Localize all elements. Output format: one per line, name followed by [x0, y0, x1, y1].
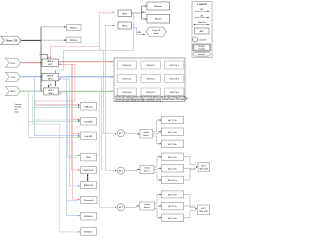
node AP1 circle [117, 130, 124, 137]
svg-text:AP 2: AP 2 [119, 170, 123, 173]
svg-text:OVS Ch 2: OVS Ch 2 [170, 78, 180, 80]
svg-text:inverter: inverter [198, 48, 205, 51]
box AC 2-3 [162, 176, 184, 184]
wire blue branch to box D [67, 156, 79, 158]
wire AP2 to hub2 [125, 169, 140, 171]
box AC 2-2 [162, 165, 184, 173]
svg-text:AVR Rx A: AVR Rx A [84, 169, 94, 172]
wire red PG1 to PS-A [21, 62, 42, 63]
svg-text:8ch SW: 8ch SW [85, 136, 92, 138]
svg-text:OVS #d 2: OVS #d 2 [122, 78, 132, 80]
wire blue LV4 riser to boxes A B C [34, 77, 80, 137]
legend junction circle entry [193, 37, 207, 42]
svg-text:OVS #d 3: OVS #d 3 [122, 92, 132, 94]
svg-text:AC 2-2 In: AC 2-2 In [168, 167, 177, 170]
svg-text:AC 3-2 In: AC 3-2 In [168, 205, 177, 208]
box I ATV C [81, 228, 97, 236]
box IPS1 [118, 10, 132, 17]
wire red branch to box C [73, 133, 80, 134]
wire red down to AP circle 1 [99, 50, 117, 135]
box G Chrome [81, 197, 98, 204]
svg-text:Coax TV: Coax TV [152, 30, 161, 32]
legend DC entry [194, 9, 209, 12]
svg-text:LPS 1: LPS 1 [48, 90, 55, 92]
box H ATV B [81, 212, 97, 220]
wire branch to PROJ2 [41, 39, 66, 41]
wire IPS2 to coax hexagon [132, 28, 146, 36]
box AC 1-1 [162, 116, 184, 124]
wire green EX3 riser to boxes B C [29, 91, 80, 138]
box PS-B 48V [42, 74, 59, 81]
svg-text:Power 120: Power 120 [6, 41, 18, 43]
wire group3 to AC outlet 3 [184, 194, 198, 217]
svg-text:AP 3: AP 3 [119, 206, 123, 209]
wire power main [21, 39, 41, 41]
connector coax TV antenna [146, 27, 167, 36]
wire blue riser to box F [69, 79, 80, 187]
svg-text:AC 1-3 In: AC 1-3 In [168, 143, 177, 146]
svg-text:AC 2-C In: AC 2-C In [168, 179, 178, 182]
svg-text:AC 3-3 In: AC 3-3 In [168, 217, 177, 220]
svg-text:Wi-Fi: Wi-Fi [86, 157, 91, 159]
legend device box entry [195, 28, 210, 34]
svg-text:48 V: 48 V [200, 30, 205, 33]
wire exit mark PS-A east [60, 64, 62, 66]
wire red riser to AVR E [71, 64, 80, 170]
wire exit mark PS-C east [60, 92, 62, 94]
svg-text:extender: extender [199, 38, 207, 41]
wire red PS-A stub east [59, 63, 75, 65]
svg-text:AC 1-T In: AC 1-T In [168, 119, 178, 122]
svg-text:OVS Ch 3: OVS Ch 3 [170, 92, 180, 94]
svg-text:AP 1: AP 1 [119, 132, 123, 135]
box AC 3-2 [162, 202, 184, 210]
wire red branch to PS-A top [50, 47, 100, 59]
box E AVR [81, 167, 97, 174]
svg-text:Box/Tw: Box/Tw [198, 22, 206, 24]
svg-text:PG 1: PG 1 [11, 63, 17, 65]
svg-text:Sw/n c: Sw/n c [144, 207, 150, 209]
box AC 1-2 [162, 128, 184, 136]
svg-text:AC 3-T In: AC 3-T In [168, 193, 178, 196]
note asterisk left [15, 104, 22, 114]
connector PG1 [6, 58, 21, 67]
svg-text:media: media [143, 132, 149, 134]
svg-text:IPS 1: IPS 1 [122, 13, 128, 15]
box AC 3-1 [162, 191, 184, 198]
box OVS 1-3 [165, 61, 184, 69]
box router R2 [147, 15, 170, 24]
svg-text:Chrome N: Chrome N [84, 200, 94, 202]
wire red riser to Chrome G [73, 64, 80, 200]
wire trunk stub into PS-A [39, 55, 48, 59]
box OVS 1-1 [117, 61, 136, 69]
svg-text:AC 2: AC 2 [202, 164, 206, 167]
wire blue PS-B stub east [59, 78, 70, 80]
svg-text:anten: anten [154, 32, 160, 35]
svg-text:GW 3: GW 3 [48, 93, 54, 95]
box hub3 [140, 202, 155, 210]
box OVS 3-2 [141, 88, 160, 96]
wire AP3 to hub3 [125, 205, 140, 207]
svg-text:PROJ 1: PROJ 1 [70, 28, 78, 30]
wire green PS-C to OVS row3 [58, 90, 113, 91]
svg-text:OVS #2 1: OVS #2 1 [146, 65, 156, 67]
svg-text:OVS Ch 1: OVS Ch 1 [170, 65, 180, 67]
wire AP1 to hub1 [125, 133, 140, 135]
wire green long riser to box I [33, 95, 80, 233]
wire hub2 to group2 boxes [154, 156, 162, 181]
legend inverter double box entry [193, 44, 211, 51]
wire red PG1 riser to box A [35, 64, 80, 105]
svg-text:Legend: Legend [197, 2, 207, 6]
box AC 1-3 [162, 140, 184, 148]
box B NVR [81, 118, 97, 126]
box AC outlet 3 [198, 205, 210, 215]
wire blue down to AP circle 2 [105, 25, 117, 171]
box OVS 1-2 [141, 61, 160, 69]
box OVS container [114, 58, 185, 102]
svg-text:OVS #d 1: OVS #d 1 [122, 65, 132, 67]
box AC outlet 2 [198, 163, 210, 172]
svg-text:via le: via le [15, 112, 20, 114]
wire hub3 to group3 boxes [155, 194, 162, 219]
wire green branch to box A [33, 107, 80, 108]
box hub2 [140, 165, 154, 174]
connector J1 Power 120V [1, 36, 21, 44]
wire link PS-B to PS-C [55, 81, 56, 86]
legend box [192, 2, 212, 58]
wire blue LV4 to PS-B [21, 76, 42, 77]
svg-text:media: media [144, 168, 150, 170]
svg-text:EX 3: EX 3 [11, 91, 17, 93]
svg-text:8ch NVR: 8ch NVR [84, 121, 93, 123]
svg-text:LV 4: LV 4 [11, 76, 16, 79]
wire branch to PROJ1 [41, 26, 66, 28]
box OVS 3-3 [165, 88, 184, 96]
legend connector hexagon entry [193, 52, 211, 56]
svg-text:48V A: 48V A [47, 60, 53, 63]
box AC 3-3 [162, 214, 184, 222]
legend Box-Tw entry [193, 22, 209, 25]
svg-text:AVR Rx B: AVR Rx B [84, 184, 94, 187]
box D WiFi [81, 153, 97, 161]
box C switch [81, 132, 97, 140]
svg-text:PROJ 2: PROJ 2 [70, 40, 78, 42]
wire blue riser grid branch [101, 77, 103, 171]
box F AVR B [81, 181, 97, 188]
connector EX3 [6, 87, 21, 96]
svg-text:OVS #2 2: OVS #2 2 [146, 78, 156, 80]
box hub1 [140, 130, 153, 139]
wire green down to AP circle 3 [100, 91, 117, 208]
wire exit mark PS-B east [60, 78, 62, 80]
box AC 2-1 [162, 153, 184, 161]
legend AC entry [194, 14, 209, 18]
wire blue branch to box G [67, 200, 79, 202]
svg-text:48V B: 48V B [47, 75, 53, 78]
box A USB charger [81, 103, 97, 111]
svg-text:media: media [144, 204, 150, 206]
box PROJ2 [67, 37, 82, 43]
wire blue riser to box H [67, 79, 81, 216]
box IPS2 [118, 22, 132, 29]
wire hub1 to group1 boxes [153, 119, 162, 144]
wire green EX3 to PS-C [21, 90, 44, 91]
box OVS 2-2 [141, 75, 160, 83]
svg-text:ATV/4k C: ATV/4k C [84, 230, 93, 233]
wire red PS-A to OVS row1 [59, 61, 114, 62]
box OVS 3-1 [117, 88, 136, 96]
svg-text:Modem: Modem [155, 6, 162, 8]
wire link E to F arrows [87, 174, 89, 181]
box PS-A 48V [42, 59, 59, 67]
svg-text:DC: DC [200, 9, 204, 11]
svg-text:AC: AC [200, 14, 204, 17]
svg-text:OVS #2 3: OVS #2 3 [146, 92, 156, 94]
svg-text:AC 3: AC 3 [201, 207, 205, 210]
svg-text:Router: Router [155, 18, 162, 21]
svg-text:Sw/n c: Sw/n c [144, 171, 150, 173]
wire power trunk vertical [40, 27, 42, 91]
wire red branch to box B [73, 118, 80, 119]
box OVS 2-3 [165, 75, 184, 83]
svg-text:AC 1-2 In: AC 1-2 In [168, 131, 177, 134]
wire green riser to box D [58, 93, 80, 156]
svg-text:AC 2-T In: AC 2-T In [168, 156, 178, 159]
node AP2 circle [117, 167, 124, 174]
svg-text:USB chg: USB chg [84, 106, 93, 108]
wire blue into PS-B top [55, 14, 134, 73]
box OVS 2-1 [117, 75, 136, 83]
wire blue PS-B to OVS row2 [59, 76, 114, 77]
wire red IPS1 feed [99, 11, 114, 50]
box PROJ1 [67, 25, 82, 31]
svg-text:Sw/n c: Sw/n c [143, 135, 149, 137]
note OVS paragraph [116, 95, 189, 102]
svg-text:extern 1: extern 1 [198, 53, 205, 56]
node AP3 circle [117, 204, 124, 211]
svg-text:IPS 2: IPS 2 [122, 26, 128, 28]
svg-text:Wlm-LCD: Wlm-LCD [199, 211, 208, 213]
wire blue IPS2 feed [105, 25, 114, 26]
box PS-C [44, 88, 59, 95]
wire IPS1 to R1 R2 [132, 5, 147, 19]
wire link second arrow into PS-C top [48, 85, 50, 88]
svg-text:Wlm-LCD: Wlm-LCD [199, 168, 208, 170]
wire group2 to AC outlet 2 [184, 157, 198, 180]
connector LV4 [6, 72, 21, 81]
svg-text:ATV/4k B: ATV/4k B [84, 215, 93, 218]
svg-text:boxes. The index will then be: boxes. The index will then be able to th… [116, 99, 163, 102]
svg-text:GP 2: GP 2 [48, 79, 54, 81]
box UPS R1 [147, 2, 170, 10]
